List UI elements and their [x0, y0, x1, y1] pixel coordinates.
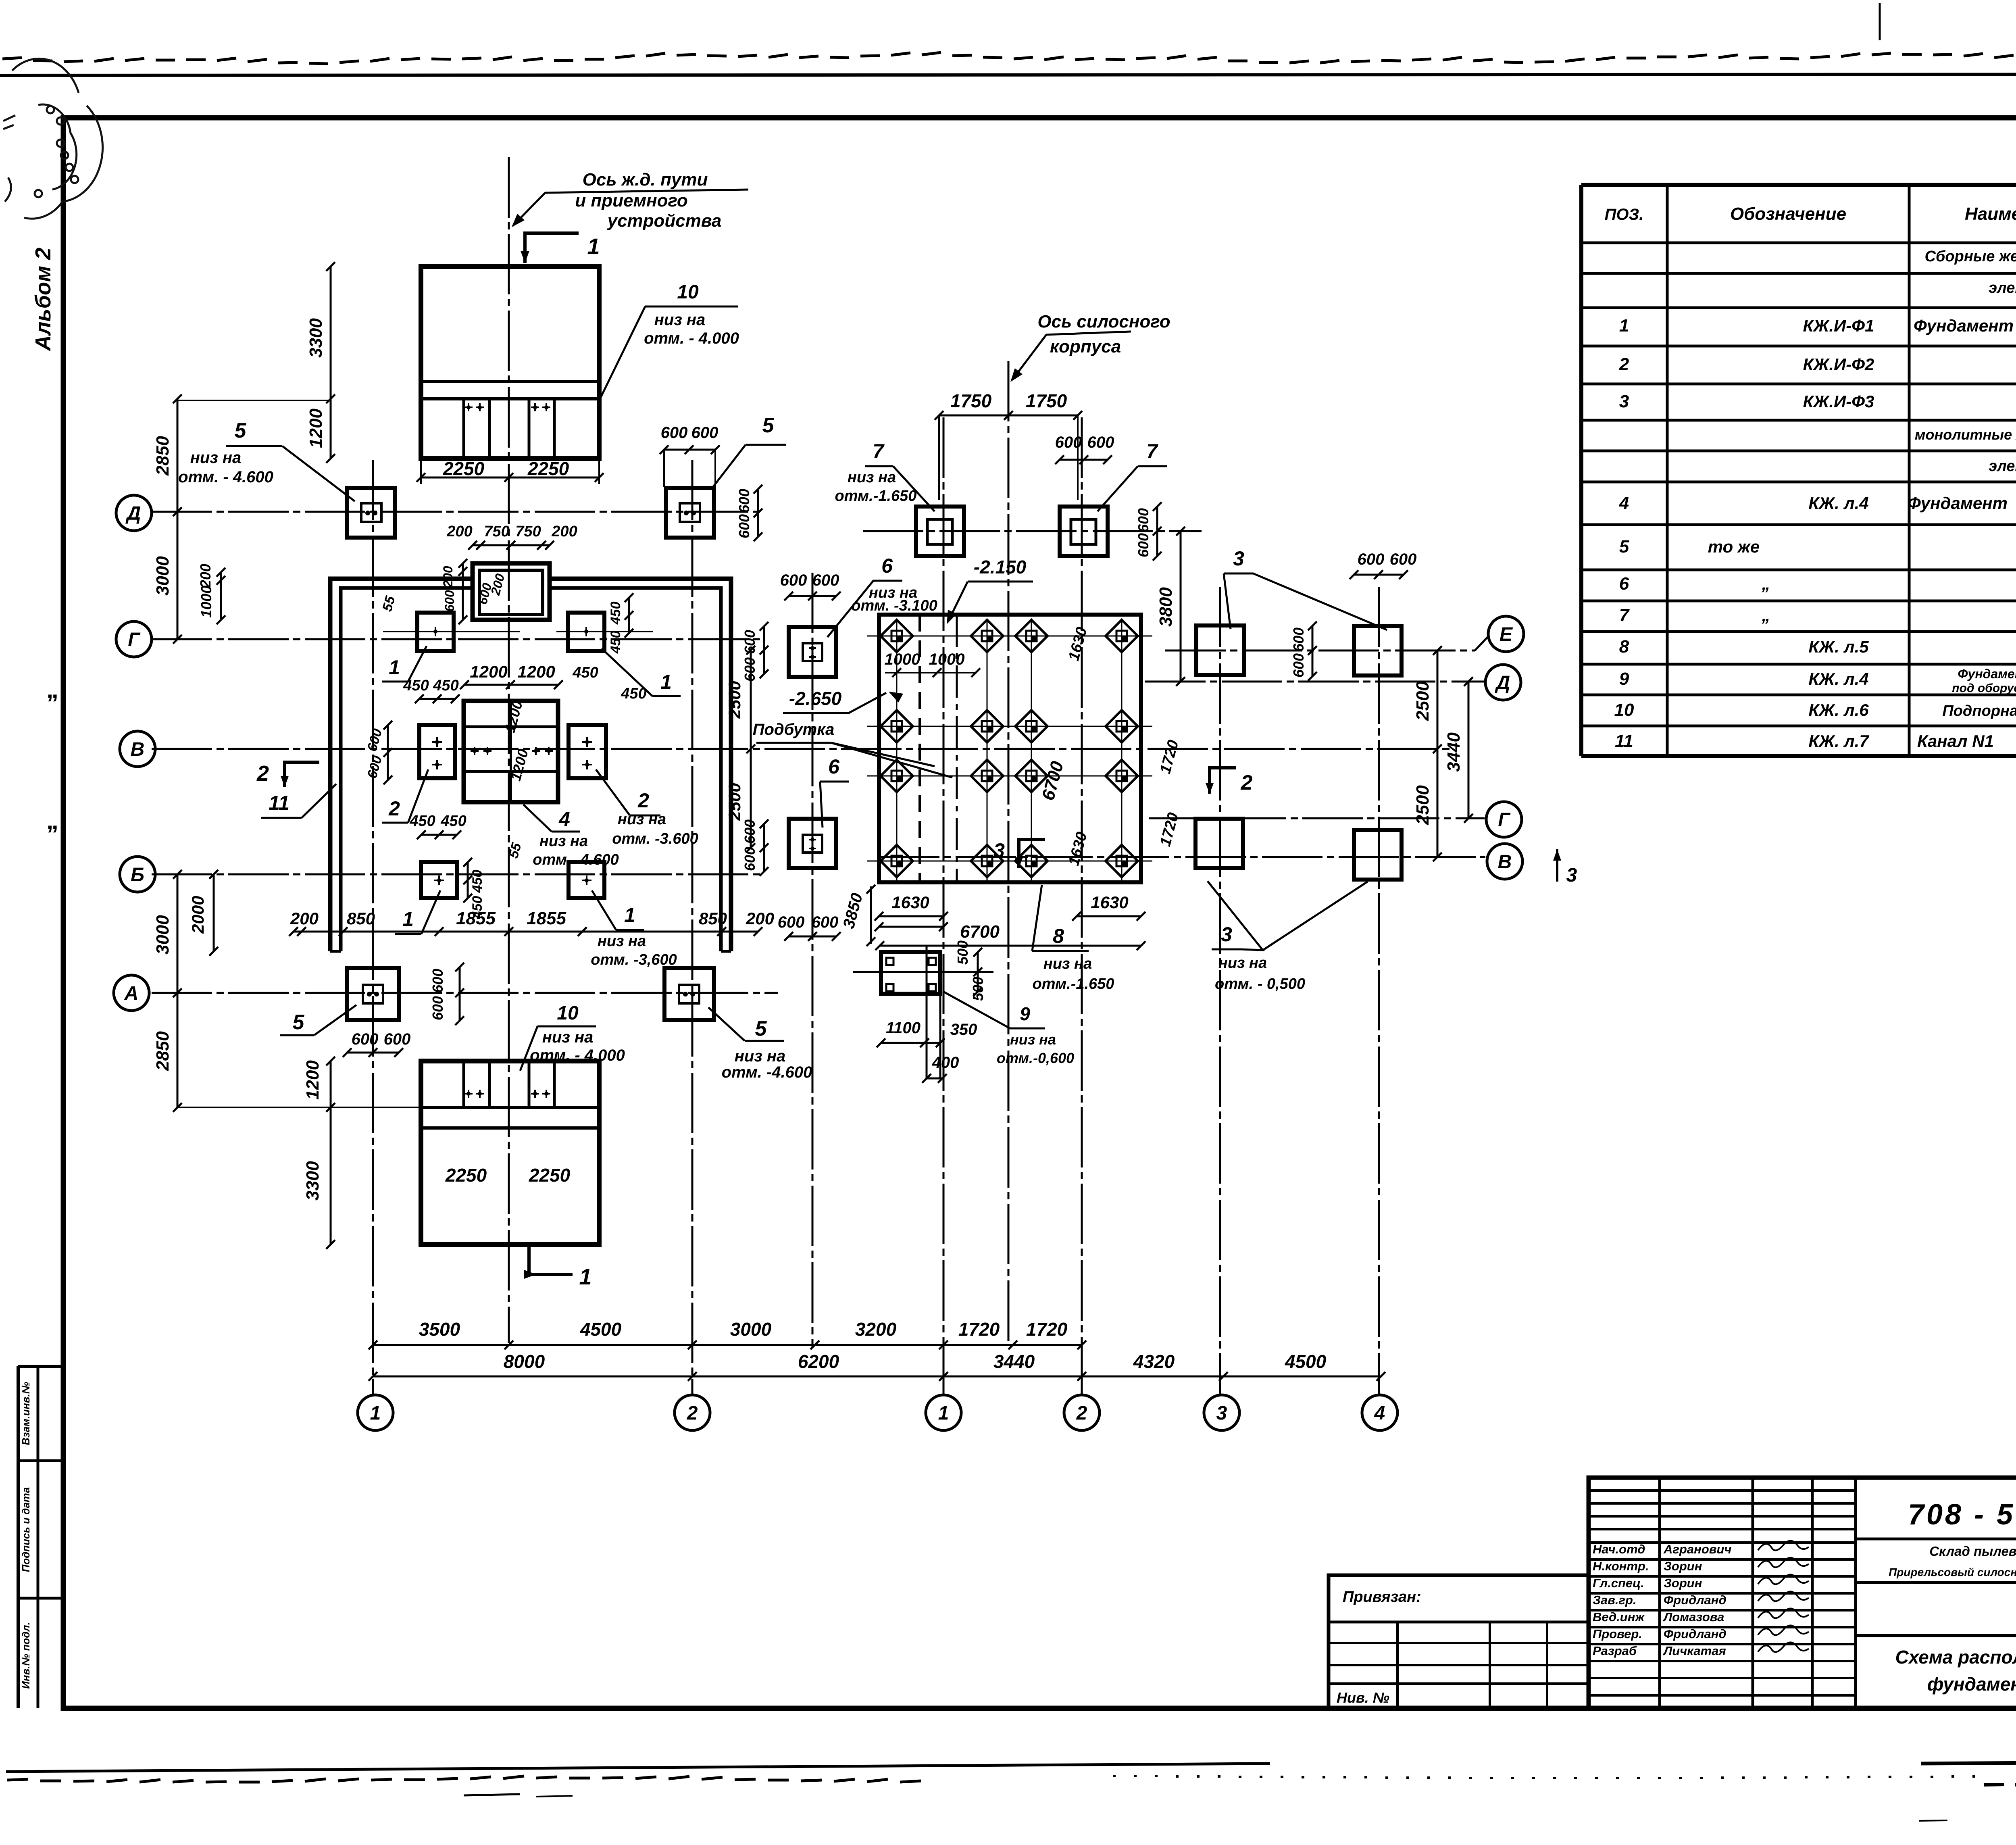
svg-text:3440: 3440	[993, 1351, 1035, 1372]
svg-text:2: 2	[687, 1403, 698, 1424]
svg-text:5: 5	[293, 1011, 305, 1034]
svg-text:3200: 3200	[855, 1319, 897, 1340]
svg-text:10: 10	[1614, 700, 1634, 720]
svg-text:Сборные железобетонные: Сборные железобетонные	[1924, 248, 2016, 265]
svg-text:600: 600	[352, 1030, 379, 1048]
svg-text:Подбутка: Подбутка	[753, 721, 835, 738]
svg-text:Личкатая: Личкатая	[1663, 1644, 1726, 1658]
svg-text:10: 10	[677, 281, 699, 303]
svg-text:350: 350	[950, 1021, 977, 1038]
svg-text:КЖ.И-Ф3: КЖ.И-Ф3	[1803, 392, 1874, 411]
svg-text:отм. - 4.000: отм. - 4.000	[530, 1047, 625, 1064]
svg-text:450: 450	[433, 677, 458, 694]
svg-text:3800: 3800	[1156, 587, 1176, 627]
svg-text:Д: Д	[1495, 672, 1510, 694]
svg-text:отм. -4.600: отм. -4.600	[533, 851, 619, 868]
svg-text:Вед.инж: Вед.инж	[1593, 1610, 1645, 1624]
svg-text:Фундамент: Фундамент	[1914, 316, 2014, 335]
svg-text:Г: Г	[128, 629, 141, 650]
svg-text:1630: 1630	[891, 893, 929, 912]
svg-text:600: 600	[1135, 533, 1152, 557]
svg-text:600: 600	[812, 571, 839, 589]
svg-text:Канал N1: Канал N1	[1917, 732, 1994, 751]
svg-text:200: 200	[290, 909, 319, 928]
svg-text:1: 1	[389, 656, 400, 679]
svg-text:3: 3	[993, 839, 1005, 862]
svg-text:низ на: низ на	[654, 311, 706, 329]
svg-text:1100: 1100	[886, 1019, 921, 1037]
svg-text:элементы: элементы	[1989, 279, 2016, 296]
svg-text:Ломазова: Ломазова	[1663, 1610, 1724, 1624]
svg-text:450: 450	[572, 664, 598, 681]
svg-text:600: 600	[736, 514, 752, 538]
svg-text:3000: 3000	[730, 1319, 772, 1340]
svg-text:низ на: низ на	[1043, 955, 1092, 972]
svg-text:450: 450	[621, 685, 646, 702]
svg-text:отм. - 0,500: отм. - 0,500	[1215, 976, 1305, 992]
svg-text:200: 200	[746, 909, 774, 928]
svg-text:450: 450	[470, 896, 485, 919]
svg-text:„: „	[1762, 574, 1770, 593]
svg-text:КЖ. л.6: КЖ. л.6	[1808, 700, 1869, 719]
svg-text:„: „	[1762, 606, 1770, 625]
svg-text:2500: 2500	[725, 783, 744, 821]
svg-text:В: В	[131, 739, 145, 760]
svg-text:В: В	[1498, 851, 1512, 873]
svg-text:Взам.инв.№: Взам.инв.№	[20, 1382, 32, 1445]
svg-text:600: 600	[429, 996, 446, 1020]
svg-text:2250: 2250	[527, 458, 569, 479]
svg-text:7: 7	[1146, 440, 1158, 463]
svg-text:600: 600	[741, 657, 758, 682]
svg-text:600: 600	[780, 571, 807, 589]
svg-text:Нив. №: Нив. №	[1337, 1689, 1389, 1706]
svg-text:А: А	[124, 983, 139, 1004]
svg-text:Фридланд: Фридланд	[1664, 1627, 1727, 1641]
svg-text:10: 10	[557, 1003, 579, 1024]
svg-text:2: 2	[388, 797, 400, 820]
svg-text:монолитные железобетонные: монолитные железобетонные	[1915, 426, 2016, 443]
svg-text:низ на: низ на	[539, 833, 588, 850]
svg-text:Е: Е	[1500, 624, 1513, 645]
svg-text:9: 9	[1020, 1003, 1030, 1024]
svg-text:3: 3	[1216, 1403, 1227, 1424]
svg-text:Обозначение: Обозначение	[1730, 204, 1846, 224]
svg-text:450: 450	[608, 602, 623, 625]
svg-text:1750: 1750	[950, 390, 992, 411]
svg-text:11: 11	[269, 792, 289, 814]
svg-text:4: 4	[558, 808, 570, 830]
svg-text:5: 5	[235, 419, 247, 442]
svg-text:отм. -3.600: отм. -3.600	[612, 830, 698, 847]
svg-text:низ на: низ на	[542, 1028, 594, 1046]
svg-text:600: 600	[661, 424, 688, 442]
svg-text:3300: 3300	[306, 318, 326, 358]
svg-text:500: 500	[970, 977, 986, 1001]
svg-text:2: 2	[637, 789, 649, 812]
svg-text:600: 600	[741, 630, 758, 654]
svg-text:600: 600	[741, 847, 758, 871]
svg-text:Б: Б	[131, 864, 144, 886]
svg-text:850: 850	[347, 909, 375, 928]
svg-text:7: 7	[873, 440, 885, 463]
svg-text:Зав.гр.: Зав.гр.	[1593, 1593, 1637, 1607]
svg-text:Провер.: Провер.	[1593, 1627, 1642, 1641]
svg-text:708 - 57. 90: 708 - 57. 90	[1908, 1499, 2016, 1531]
svg-text:элементы: элементы	[1989, 458, 2016, 475]
svg-text:„: „	[46, 676, 58, 703]
svg-text:Фридланд: Фридланд	[1664, 1593, 1727, 1607]
svg-text:1000: 1000	[198, 586, 215, 618]
svg-text:1720: 1720	[958, 1319, 1000, 1340]
svg-text:устройства: устройства	[607, 211, 722, 231]
svg-text:ПОЗ.: ПОЗ.	[1605, 206, 1644, 223]
svg-text:200: 200	[197, 564, 214, 588]
svg-text:600: 600	[1087, 434, 1114, 451]
svg-text:Инв.№ подл.: Инв.№ подл.	[20, 1622, 32, 1689]
svg-text:6: 6	[828, 755, 840, 778]
svg-text:2: 2	[1619, 354, 1629, 374]
svg-text:9: 9	[1619, 669, 1629, 689]
svg-text:отм.-0,600: отм.-0,600	[997, 1050, 1074, 1066]
svg-text:1: 1	[660, 671, 672, 693]
svg-text:4500: 4500	[1285, 1351, 1327, 1372]
svg-text:600: 600	[1390, 550, 1417, 568]
svg-text:1: 1	[587, 233, 600, 259]
svg-text:600: 600	[384, 1030, 411, 1048]
svg-text:Гл.спец.: Гл.спец.	[1593, 1576, 1644, 1590]
svg-text:1: 1	[402, 908, 414, 930]
svg-text:КЖ. л.4: КЖ. л.4	[1808, 669, 1868, 688]
svg-text:450: 450	[409, 813, 435, 830]
svg-text:низ на: низ на	[848, 469, 896, 486]
svg-text:1: 1	[370, 1403, 381, 1424]
svg-text:Наименование: Наименование	[1965, 204, 2016, 224]
svg-text:600: 600	[429, 969, 446, 993]
svg-text:1: 1	[624, 904, 635, 926]
svg-text:2500: 2500	[1413, 785, 1433, 825]
svg-text:Подпись и дата: Подпись и дата	[20, 1487, 32, 1572]
svg-text:Схема расположения: Схема расположения	[1895, 1647, 2016, 1668]
svg-text:Подпорная стена Ст1: Подпорная стена Ст1	[1942, 703, 2016, 719]
svg-text:отм. -3,600: отм. -3,600	[591, 951, 677, 968]
svg-text:-2.150: -2.150	[974, 557, 1027, 577]
svg-text:2: 2	[1241, 771, 1253, 794]
svg-text:Разраб: Разраб	[1593, 1644, 1637, 1658]
svg-text:низ на: низ на	[190, 449, 242, 467]
svg-text:отм. -3.100: отм. -3.100	[851, 597, 937, 614]
svg-text:отм.-1.650: отм.-1.650	[835, 488, 917, 505]
svg-text:5: 5	[755, 1017, 767, 1040]
svg-text:Фундамент: Фундамент	[1958, 667, 2016, 681]
svg-text:600: 600	[1135, 508, 1152, 532]
svg-text:1200: 1200	[517, 662, 555, 681]
svg-text:4500: 4500	[580, 1319, 622, 1340]
svg-text:Зорин: Зорин	[1664, 1559, 1702, 1573]
svg-text:низ на: низ на	[598, 933, 646, 950]
svg-text:450: 450	[608, 631, 623, 654]
svg-text:низ на: низ на	[1218, 955, 1267, 971]
svg-text:500: 500	[954, 940, 971, 965]
svg-text:600: 600	[1290, 653, 1307, 678]
svg-text:1000: 1000	[885, 650, 921, 668]
svg-text:корпуса: корпуса	[1050, 337, 1121, 356]
svg-text:5: 5	[1619, 537, 1629, 557]
svg-text:Прирельсовый силосного типа (м: Прирельсовый силосного типа (мобильный) …	[1889, 1566, 2016, 1578]
svg-text:3300: 3300	[303, 1161, 323, 1201]
svg-text:под оборудование: под оборудование	[1952, 682, 2016, 695]
svg-text:3: 3	[1233, 547, 1244, 570]
svg-text:6200: 6200	[798, 1351, 839, 1372]
svg-text:Ось ж.д. пути: Ось ж.д. пути	[583, 170, 708, 190]
svg-text:3: 3	[1619, 392, 1629, 411]
svg-text:то же: то же	[1708, 537, 1760, 556]
svg-text:низ на: низ на	[618, 811, 666, 828]
svg-text:750: 750	[515, 523, 541, 540]
svg-text:600: 600	[1358, 550, 1385, 568]
svg-text:2500: 2500	[725, 681, 744, 719]
svg-text:3: 3	[1566, 865, 1577, 886]
svg-text:1200: 1200	[470, 662, 507, 681]
svg-text:4320: 4320	[1133, 1351, 1175, 1372]
svg-text:6700: 6700	[960, 922, 1000, 942]
svg-text:7: 7	[1619, 605, 1630, 625]
svg-text:КЖ.И-Ф1: КЖ.И-Ф1	[1803, 316, 1874, 335]
svg-text:1855: 1855	[527, 909, 566, 928]
svg-text:КЖ. л.7: КЖ. л.7	[1808, 732, 1869, 751]
svg-text:1000: 1000	[929, 650, 965, 668]
svg-text:Г: Г	[1498, 809, 1511, 831]
svg-text:1750: 1750	[1026, 390, 1067, 411]
svg-text:Склад пылевидных строительны: Склад пылевидных строительных материалов	[1929, 1544, 2016, 1559]
svg-text:Нач.отд: Нач.отд	[1593, 1542, 1645, 1556]
svg-text:200: 200	[551, 523, 577, 540]
svg-text:Н.контр.: Н.контр.	[1593, 1559, 1649, 1573]
svg-text:200: 200	[441, 566, 455, 588]
svg-text:1200: 1200	[306, 409, 326, 448]
svg-text:отм. - 4.000: отм. - 4.000	[644, 329, 739, 347]
svg-text:8: 8	[1619, 637, 1629, 657]
svg-text:1: 1	[938, 1403, 949, 1424]
svg-text:1630: 1630	[1091, 893, 1128, 912]
svg-text:2: 2	[1076, 1403, 1087, 1424]
svg-text:„: „	[46, 807, 58, 834]
svg-text:Фундамент: Фундамент	[1908, 494, 2008, 513]
svg-text:850: 850	[699, 909, 727, 928]
svg-text:8: 8	[1053, 925, 1064, 947]
svg-text:2850: 2850	[153, 1031, 173, 1071]
svg-text:3000: 3000	[153, 915, 173, 955]
svg-text:6: 6	[1619, 574, 1629, 594]
svg-text:2250: 2250	[529, 1165, 571, 1186]
svg-text:Привязан:: Привязан:	[1343, 1589, 1421, 1605]
svg-text:Ось силосного: Ось силосного	[1037, 312, 1170, 331]
svg-text:3: 3	[1221, 923, 1232, 946]
svg-text:2000: 2000	[188, 896, 207, 934]
svg-text:2850: 2850	[153, 436, 173, 476]
svg-text:-2.650: -2.650	[789, 688, 842, 709]
svg-text:5: 5	[762, 414, 775, 437]
svg-text:1200: 1200	[303, 1060, 323, 1100]
svg-text:КЖ. л.5: КЖ. л.5	[1808, 637, 1869, 656]
svg-text:Агранович: Агранович	[1663, 1542, 1732, 1556]
svg-text:4: 4	[1374, 1403, 1385, 1424]
svg-text:3500: 3500	[419, 1319, 460, 1340]
svg-text:11: 11	[1615, 731, 1633, 751]
svg-text:450: 450	[440, 813, 466, 830]
svg-text:600: 600	[1290, 628, 1307, 652]
svg-text:600: 600	[741, 819, 758, 844]
svg-text:8000: 8000	[504, 1351, 545, 1372]
svg-text:600: 600	[1055, 434, 1082, 451]
svg-text:400: 400	[932, 1054, 959, 1072]
svg-text:отм. - 4.600: отм. - 4.600	[178, 468, 273, 486]
svg-text:КЖ. л.4: КЖ. л.4	[1808, 494, 1868, 513]
svg-text:3000: 3000	[153, 556, 173, 596]
svg-text:фундаментов: фундаментов	[1927, 1674, 2016, 1695]
svg-text:низ на: низ на	[735, 1047, 786, 1065]
svg-text:600: 600	[691, 424, 719, 442]
svg-text:отм. -4.600: отм. -4.600	[722, 1063, 812, 1081]
svg-text:600: 600	[442, 590, 457, 612]
svg-text:3440: 3440	[1444, 732, 1464, 772]
svg-text:1720: 1720	[1026, 1319, 1068, 1340]
svg-text:2: 2	[256, 761, 269, 786]
svg-text:2250: 2250	[445, 1165, 487, 1186]
svg-text:Д: Д	[125, 503, 141, 524]
svg-text:750: 750	[484, 523, 509, 540]
svg-text:600: 600	[812, 913, 839, 931]
svg-text:1: 1	[579, 1264, 591, 1289]
svg-text:1: 1	[1619, 316, 1629, 336]
svg-text:отм.-1.650: отм.-1.650	[1033, 976, 1114, 992]
svg-text:600: 600	[736, 489, 752, 513]
svg-text:и приемного: и приемного	[575, 191, 687, 211]
svg-text:Зорин: Зорин	[1664, 1576, 1702, 1590]
svg-text:450: 450	[403, 677, 429, 694]
svg-text:6: 6	[881, 555, 893, 577]
svg-text:4: 4	[1619, 493, 1629, 513]
svg-text:2250: 2250	[443, 458, 485, 479]
svg-text:Альбом 2: Альбом 2	[31, 248, 55, 352]
svg-text:200: 200	[446, 523, 472, 540]
svg-text:низ на: низ на	[1010, 1031, 1056, 1048]
svg-text:450: 450	[470, 870, 485, 893]
svg-text:2500: 2500	[1413, 681, 1433, 721]
svg-text:КЖ.И-Ф2: КЖ.И-Ф2	[1803, 355, 1874, 374]
svg-text:600: 600	[778, 913, 805, 931]
